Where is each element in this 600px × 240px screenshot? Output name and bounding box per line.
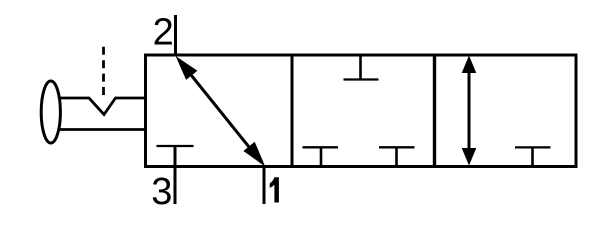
divider between position 2 and 3	[433, 55, 436, 167]
svg-text:3: 3	[151, 171, 172, 213]
blocked port symbol box2 bottom-left	[303, 147, 339, 166]
divider between position 1 and 2	[291, 55, 294, 167]
svg-text:2: 2	[153, 12, 174, 54]
blocked port symbol box1 bottom (port 3 seat)	[157, 145, 194, 147]
label 1	[270, 177, 279, 202]
label 3	[151, 171, 172, 213]
actuator rod top line with detent notch	[56, 98, 144, 115]
blocked port symbol box3 bottom	[515, 147, 551, 166]
port 2 line	[174, 15, 177, 56]
port 1 line	[263, 167, 266, 205]
detent dashed actuation line	[102, 47, 105, 95]
blocked port symbol box2 top	[344, 55, 379, 80]
flow path arrow box3 (vertical double headed)	[462, 56, 477, 166]
valve body outer box	[146, 55, 577, 167]
actuator rod bottom line	[56, 128, 144, 131]
port 3 line	[174, 145, 177, 204]
blocked port symbol box2 bottom-right	[379, 147, 415, 166]
flow path arrow 1-2 (double headed diagonal)	[176, 56, 266, 167]
push button head (ellipse)	[41, 81, 60, 143]
label 2	[153, 12, 174, 54]
